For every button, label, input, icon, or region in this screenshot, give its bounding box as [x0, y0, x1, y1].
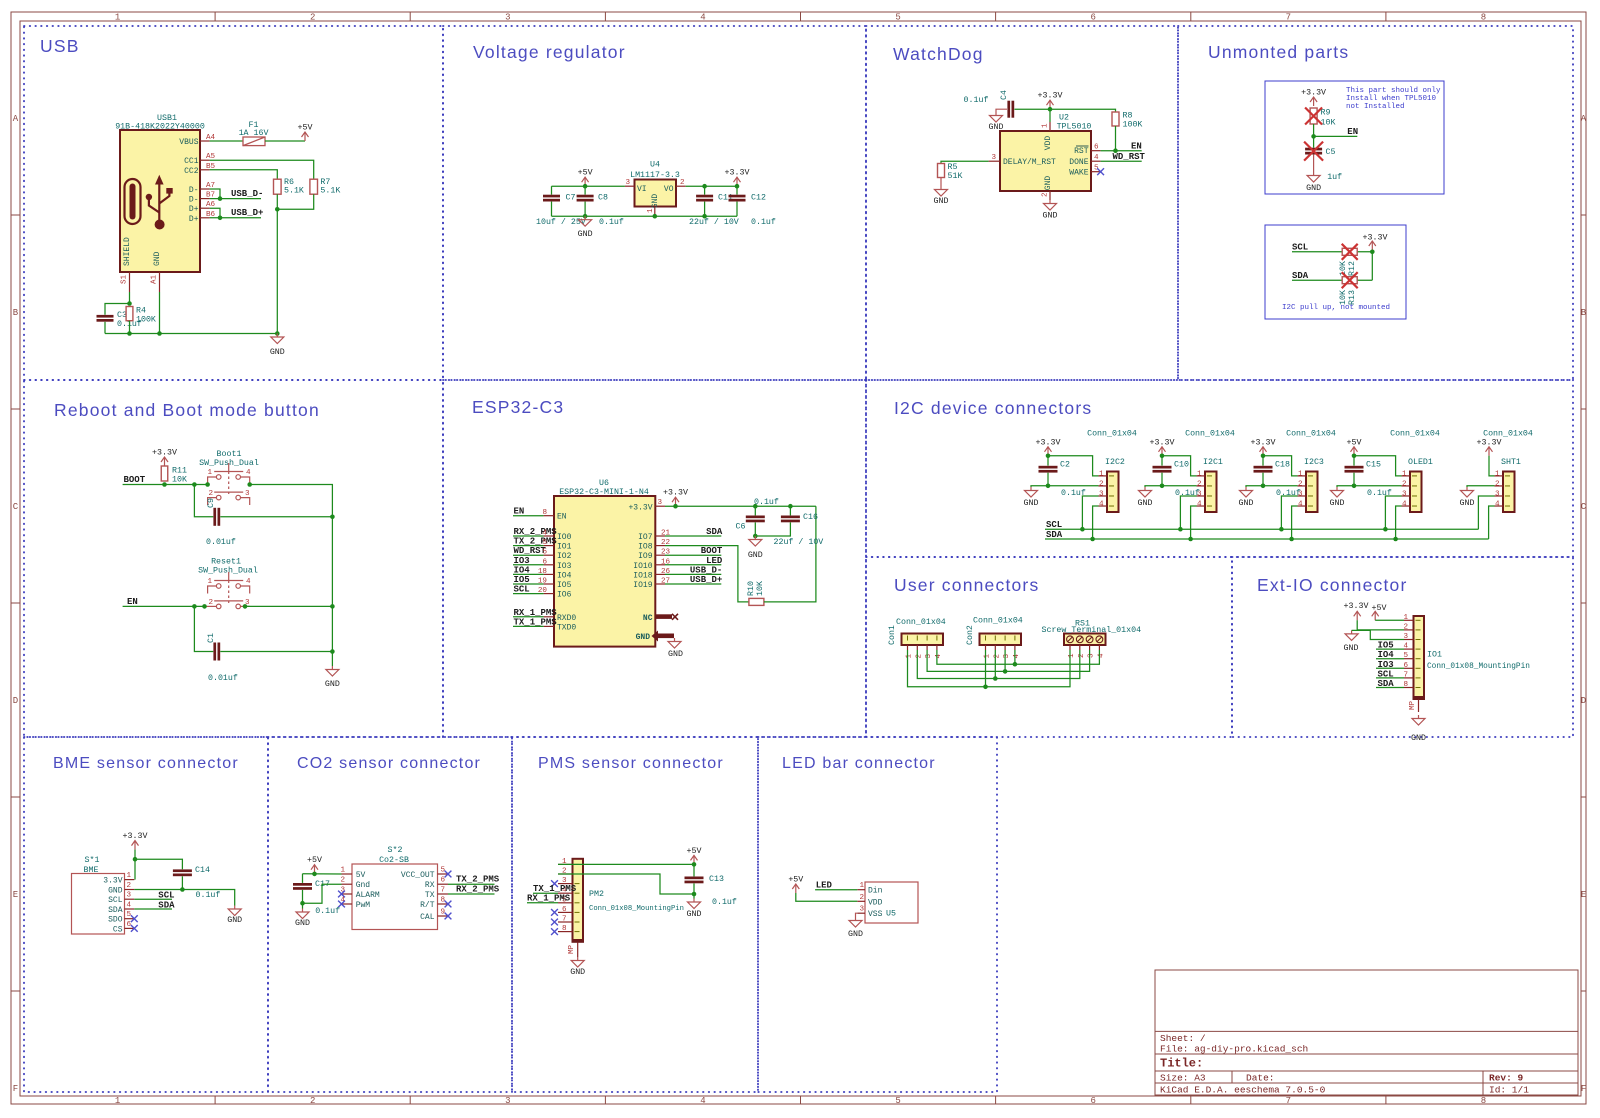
svg-text:SCL: SCL — [514, 585, 530, 595]
svg-text:C1: C1 — [207, 633, 216, 643]
junction SDA I2C2 — [1090, 537, 1095, 542]
svg-text:4: 4 — [1495, 501, 1500, 509]
pin VCC_OUT co2 — [438, 873, 449, 875]
pin IO4 — [544, 573, 554, 575]
svg-text:2: 2 — [915, 654, 923, 659]
ground reboot — [326, 666, 339, 676]
wire CC2 to R6 — [210, 170, 278, 179]
pin IO5 — [544, 583, 554, 585]
svg-text:EN: EN — [557, 513, 567, 522]
svg-text:C18: C18 — [1275, 461, 1290, 470]
wire user net pin1 — [908, 650, 1071, 687]
svg-text:F: F — [1581, 1084, 1586, 1094]
svg-text:R13: R13 — [1348, 290, 1357, 305]
svg-text:3: 3 — [657, 499, 662, 507]
junction RST — [1113, 148, 1118, 153]
junction cap gnd I2C2 — [1046, 484, 1051, 489]
svg-text:1: 1 — [207, 578, 212, 586]
svg-text:100K: 100K — [136, 316, 156, 325]
pin 5 pms — [558, 902, 573, 904]
svg-text:GND: GND — [1024, 499, 1039, 508]
pin IO10 — [655, 564, 665, 566]
pin 5 ext-io — [1404, 658, 1414, 660]
junction USB_D+ — [218, 216, 223, 221]
svg-text:1: 1 — [984, 654, 992, 659]
svg-text:RX: RX — [425, 881, 435, 890]
screw 1 — [1067, 636, 1074, 643]
svg-text:IO0: IO0 — [557, 533, 572, 542]
svg-text:2: 2 — [1099, 480, 1104, 488]
svg-text:U4: U4 — [650, 161, 660, 170]
svg-text:Conn_01x04: Conn_01x04 — [1483, 430, 1533, 439]
svg-text:Reboot and Boot mode button: Reboot and Boot mode button — [54, 400, 320, 420]
capacitor C13 — [693, 864, 695, 876]
svg-text:22uf / 10V: 22uf / 10V — [774, 537, 824, 547]
USB trident icon — [149, 182, 170, 221]
svg-text:7: 7 — [1403, 671, 1408, 679]
svg-text:OLED1: OLED1 — [1408, 458, 1433, 467]
junction user pin2 — [993, 676, 998, 681]
pin 5 WAKE no-connect — [1091, 171, 1101, 173]
svg-text:BME: BME — [84, 866, 99, 875]
svg-text:GND: GND — [325, 680, 340, 689]
capacitor C12 — [736, 186, 738, 194]
wire I2C3 pin3 to SCL — [1281, 496, 1297, 529]
fuse F1 — [243, 137, 265, 146]
svg-text:GND: GND — [1344, 644, 1359, 653]
wire power to pin1 — [1263, 456, 1298, 476]
svg-text:GND: GND — [153, 251, 162, 266]
svg-text:1uf: 1uf — [1327, 172, 1342, 182]
resistor R8 — [1112, 112, 1119, 126]
wire power to pin1 — [1162, 456, 1197, 476]
svg-text:3: 3 — [1003, 654, 1011, 659]
junction power OLED1 — [1352, 454, 1357, 459]
junction user pin1 — [983, 685, 988, 690]
svg-text:VDD: VDD — [1044, 136, 1053, 151]
svg-text:4: 4 — [1094, 154, 1099, 162]
svg-text:I2C2: I2C2 — [1105, 458, 1125, 467]
pin 6 RST — [1091, 150, 1101, 152]
svg-text:GND: GND — [636, 633, 651, 642]
svg-text:1: 1 — [1495, 470, 1500, 478]
svg-text:3: 3 — [1402, 490, 1407, 498]
power +3.3V watchdog — [1047, 100, 1054, 109]
junction power I2C2 — [1046, 454, 1051, 459]
frame column ticks and numbers — [214, 12, 216, 21]
svg-text:100K: 100K — [1123, 121, 1143, 130]
wire user net pin4 — [937, 650, 1100, 664]
svg-text:U5: U5 — [886, 910, 896, 919]
pin 2 VO — [676, 185, 686, 187]
svg-text:4: 4 — [246, 578, 251, 586]
junction gnd U4 — [653, 214, 658, 219]
wire VSS to gnd — [856, 913, 858, 917]
svg-text:22uf / 10V: 22uf / 10V — [689, 217, 739, 227]
svg-text:3: 3 — [245, 490, 250, 498]
connector IO1 body — [1414, 616, 1425, 699]
svg-text:I2C3: I2C3 — [1304, 458, 1324, 467]
wire RST / EN — [1101, 150, 1142, 152]
junction SDA I2C1 — [1188, 537, 1193, 542]
svg-text:Title:: Title: — [1160, 1057, 1203, 1071]
svg-text:TPL5010: TPL5010 — [1057, 123, 1092, 132]
svg-text:2: 2 — [127, 882, 132, 890]
capacitor C14 — [173, 869, 192, 872]
junction C16 top — [788, 504, 793, 509]
symbol S*1 BME body — [72, 874, 125, 935]
wire D- pair to label — [210, 189, 220, 199]
pin 8 pms — [558, 931, 573, 933]
svg-text:C14: C14 — [195, 866, 210, 875]
junction R4 bottom — [127, 331, 132, 336]
svg-text:IO6: IO6 — [557, 591, 572, 600]
connector I2C1 — [1205, 472, 1217, 513]
pin 6 ext-io — [1404, 667, 1414, 669]
resistor R6 — [274, 179, 282, 194]
pin IO8 — [655, 545, 665, 547]
svg-text:Conn_01x08_MountingPin: Conn_01x08_MountingPin — [589, 905, 684, 913]
svg-text:Din: Din — [868, 887, 883, 896]
svg-text:GND: GND — [295, 919, 310, 928]
wire R5 to pin3 — [941, 161, 989, 163]
pin GND bme — [125, 889, 135, 891]
svg-text:+3.3V: +3.3V — [663, 489, 688, 498]
junction cap gnd I2C1 — [1160, 484, 1165, 489]
connector OLED1 — [1410, 472, 1422, 513]
svg-text:IO3: IO3 — [557, 562, 572, 571]
svg-text:E: E — [1581, 890, 1586, 900]
svg-text:R9: R9 — [1321, 109, 1331, 118]
wire +5V junction — [303, 873, 342, 875]
svg-text:Unmonted parts: Unmonted parts — [1208, 42, 1349, 62]
wire SHIELD to C3/R4 — [129, 292, 131, 304]
wire power to pin1 sht — [1489, 456, 1495, 476]
svg-text:4: 4 — [1403, 643, 1408, 651]
frame row ticks and letters — [11, 214, 20, 216]
pin Gnd co2 — [342, 883, 353, 885]
svg-text:USB_D+: USB_D+ — [231, 208, 263, 218]
svg-text:TX_1_PMS: TX_1_PMS — [514, 617, 558, 627]
svg-text:S*2: S*2 — [388, 845, 403, 855]
ground C5 — [1307, 172, 1320, 182]
svg-text:8: 8 — [1403, 681, 1408, 689]
svg-text:I2C device connectors: I2C device connectors — [894, 398, 1092, 418]
svg-text:WD_RST: WD_RST — [1113, 152, 1146, 162]
svg-text:S1: S1 — [121, 274, 129, 284]
svg-text:2: 2 — [208, 599, 213, 607]
bottom rail wire — [105, 333, 277, 335]
junction co2 power — [312, 872, 317, 877]
regulator U4 body — [635, 180, 677, 207]
svg-text:GND: GND — [934, 197, 949, 206]
svg-text:C10: C10 — [1174, 461, 1189, 470]
svg-text:SDO: SDO — [108, 916, 123, 925]
pin 4 ext-io — [1404, 648, 1414, 650]
svg-text:Sheet: /: Sheet: / — [1160, 1033, 1206, 1044]
svg-text:GND: GND — [570, 968, 585, 977]
pin 6 pms — [558, 911, 573, 913]
power +3.3V SHT1 — [1486, 447, 1493, 456]
capacitor C1 — [194, 606, 213, 651]
pin 5V co2 — [342, 873, 353, 875]
ground I2C1 — [1139, 487, 1152, 497]
section box I2C device connectors — [866, 380, 1573, 557]
svg-text:WAKE: WAKE — [1069, 169, 1088, 178]
svg-text:Rev: 9: Rev: 9 — [1489, 1073, 1524, 1084]
bottom rail — [552, 215, 738, 217]
svg-text:2: 2 — [1298, 480, 1303, 488]
no-connect SDO — [131, 915, 138, 922]
svg-text:10K: 10K — [172, 476, 187, 485]
svg-text:GND: GND — [748, 551, 763, 560]
capacitor C15 — [1353, 456, 1355, 466]
svg-text:C6: C6 — [736, 523, 746, 532]
junction gnd rail — [275, 331, 280, 336]
svg-text:GND: GND — [687, 910, 702, 919]
svg-text:10K: 10K — [756, 581, 765, 596]
connector Con1 — [902, 634, 944, 646]
pin GND A1 — [159, 272, 161, 292]
svg-text:CO2 sensor connector: CO2 sensor connector — [297, 755, 481, 772]
svg-text:SHIELD: SHIELD — [123, 237, 132, 266]
svg-text:CC1: CC1 — [184, 157, 199, 166]
wire OLED1 pin4 to SDA — [1396, 506, 1402, 539]
ground R5 — [935, 186, 948, 196]
section box Unmonted parts — [1178, 26, 1573, 380]
pin MP pms — [573, 939, 584, 943]
wire boot right rail — [250, 485, 333, 667]
svg-text:Co2-SB: Co2-SB — [379, 856, 409, 865]
wire VBUS to fuse — [210, 140, 243, 142]
svg-text:Boot1: Boot1 — [217, 450, 242, 459]
wire I2C2 pin4 to SDA — [1093, 506, 1099, 539]
svg-text:3: 3 — [505, 13, 510, 23]
wire pin2 to gnd sht — [1467, 486, 1495, 487]
wire power to pin1 and C14 — [134, 850, 136, 880]
ground C4 — [990, 112, 1003, 122]
pin D- A7 — [200, 188, 210, 190]
pin IO7 — [655, 535, 665, 537]
screw 4 — [1096, 636, 1103, 643]
screw 3 — [1086, 636, 1093, 643]
svg-text:EN: EN — [514, 507, 525, 517]
wire pin1 to +5V — [558, 863, 694, 865]
section box Voltage regulator — [443, 26, 866, 380]
wire R9 to EN — [1314, 124, 1358, 136]
svg-text:TX_1_PMS: TX_1_PMS — [533, 884, 577, 894]
power +5V pms — [691, 855, 698, 864]
pin MP ext-io — [1418, 699, 1420, 712]
svg-text:GND: GND — [227, 916, 242, 925]
svg-text:5: 5 — [895, 13, 900, 23]
svg-text:+3.3V: +3.3V — [725, 169, 750, 178]
junction power I2C3 — [1261, 454, 1266, 459]
wire SDA — [1292, 279, 1372, 281]
svg-text:Ext-IO connector: Ext-IO connector — [1257, 575, 1408, 595]
section box User connectors — [866, 557, 1232, 737]
svg-text:0.1uf: 0.1uf — [196, 890, 221, 900]
junction C6 top — [753, 504, 758, 509]
svg-text:Conn_01x08_MountingPin: Conn_01x08_MountingPin — [1427, 663, 1530, 671]
svg-text:I2C1: I2C1 — [1203, 458, 1223, 467]
no-connect pins 3 6 7 8 — [551, 880, 558, 887]
svg-text:LED bar connector: LED bar connector — [782, 755, 936, 772]
svg-text:DONE: DONE — [1069, 158, 1088, 167]
wire +3.3V to R8 — [1050, 109, 1116, 112]
power +3.3V I2C2 — [1045, 447, 1052, 456]
pin IO1 — [544, 545, 554, 547]
pin 3 DELAY/M_RST — [989, 160, 1000, 162]
capacitor C11 — [704, 186, 706, 194]
svg-text:18: 18 — [538, 568, 548, 576]
junction user pin4 — [1013, 662, 1018, 667]
pin SHIELD S1 — [129, 272, 131, 292]
ground SHT1 — [1461, 487, 1474, 497]
pin 2 GND — [1049, 191, 1051, 200]
svg-text:S*1: S*1 — [85, 855, 100, 865]
svg-text:3: 3 — [505, 1096, 510, 1106]
svg-text:SDA: SDA — [108, 906, 123, 915]
svg-text:EN: EN — [1131, 142, 1142, 152]
svg-text:DELAY/M_RST: DELAY/M_RST — [1003, 158, 1056, 167]
svg-text:C16: C16 — [803, 513, 818, 522]
junction SCL I2C2 — [1080, 527, 1085, 532]
junction R11 — [162, 482, 167, 487]
svg-text:+3.3V: +3.3V — [1301, 89, 1326, 98]
wire R8 to RST — [1115, 126, 1117, 151]
resistor R4 — [126, 307, 133, 321]
pin TX co2 — [438, 893, 449, 895]
wire BOOT — [123, 484, 208, 486]
wire +5V to pin1 — [1375, 619, 1404, 621]
svg-text:+3.3V: +3.3V — [1344, 602, 1369, 611]
junction bme power — [133, 857, 138, 862]
svg-text:GND: GND — [1138, 499, 1153, 508]
svg-text:+5V: +5V — [788, 876, 803, 885]
svg-text:3: 3 — [127, 892, 132, 900]
wire pin2 to C13 bottom — [558, 874, 694, 894]
junction SDA I2C3 — [1289, 537, 1294, 542]
svg-text:VSS: VSS — [868, 910, 883, 919]
svg-text:C5: C5 — [1326, 148, 1336, 157]
pin RXD0 — [544, 616, 554, 618]
svg-text:7: 7 — [1286, 1096, 1291, 1106]
svg-text:1: 1 — [1068, 653, 1076, 658]
svg-text:D+: D+ — [189, 205, 199, 214]
junction cap branch boot — [192, 482, 197, 487]
svg-text:BOOT: BOOT — [124, 475, 146, 485]
svg-text:2: 2 — [1403, 623, 1408, 631]
svg-text:SDA: SDA — [1292, 271, 1309, 281]
svg-text:CC2: CC2 — [184, 167, 199, 176]
pin 7 pms — [558, 921, 573, 923]
svg-text:+3.3V: +3.3V — [1251, 438, 1276, 447]
section box Reboot — [24, 380, 443, 737]
connector I2C2 — [1107, 472, 1119, 513]
power +3.3V pullup — [1369, 241, 1376, 250]
svg-text:Con2: Con2 — [966, 625, 975, 645]
svg-text:0.1uf: 0.1uf — [751, 217, 776, 227]
wire I2C1 pin4 to SDA — [1191, 506, 1197, 539]
junction reset pin3 — [243, 604, 248, 609]
wire IO8 to R10 — [665, 546, 749, 602]
svg-text:3.3V: 3.3V — [103, 877, 122, 886]
ground GND usb — [271, 334, 284, 344]
junction boot cap right — [330, 515, 335, 520]
svg-text:+5V: +5V — [1347, 438, 1362, 447]
wire CC1 to R7 — [210, 160, 314, 179]
pin 3 ext-io — [1404, 639, 1414, 641]
junction gnd C11 — [702, 214, 707, 219]
svg-text:RX_2_PMS: RX_2_PMS — [456, 885, 500, 895]
pin IO19 — [655, 583, 665, 585]
junction C8 top — [583, 184, 588, 189]
svg-text:0.1uf: 0.1uf — [315, 906, 340, 916]
wire R7 bottom to junction — [277, 194, 313, 209]
ground bme — [228, 906, 241, 916]
svg-text:+3.3V: +3.3V — [1363, 234, 1388, 243]
svg-text:C13: C13 — [709, 875, 724, 884]
wire power to pin1 — [1048, 456, 1099, 476]
pin 1 ext-io — [1404, 619, 1414, 621]
pin IO3 — [544, 564, 554, 566]
svg-text:Conn_01x04: Conn_01x04 — [896, 618, 946, 627]
svg-text:7: 7 — [441, 887, 446, 895]
junction reset rail — [330, 604, 335, 609]
wire cap to pin2 — [1048, 485, 1099, 487]
svg-text:2: 2 — [993, 654, 1001, 659]
svg-text:U6: U6 — [599, 479, 609, 488]
pin CAL co2 — [438, 915, 449, 917]
wire fuse to +5V — [265, 140, 305, 142]
wire user net pin3 — [927, 650, 1090, 671]
pin GND esp — [658, 634, 674, 639]
ground OLED1 — [1331, 487, 1344, 497]
svg-text:PM2: PM2 — [589, 890, 604, 899]
svg-text:+5V: +5V — [578, 169, 593, 178]
wire pin2 to gnd — [303, 884, 342, 903]
svg-text:3: 3 — [1088, 653, 1096, 658]
junction cap gnd OLED1 — [1352, 484, 1357, 489]
svg-text:SCL: SCL — [1292, 243, 1308, 253]
wire SCL — [1292, 251, 1372, 253]
svg-text:D: D — [13, 696, 18, 706]
wire I2C3 pin4 to SDA — [1292, 506, 1298, 539]
junction cap gnd I2C3 — [1261, 484, 1266, 489]
svg-text:This part should only: This part should only — [1346, 87, 1441, 95]
svg-text:A: A — [13, 114, 19, 124]
svg-text:I2C pull up, not mounted: I2C pull up, not mounted — [1282, 304, 1390, 312]
pin SCL bme — [125, 898, 135, 900]
svg-text:+3.3V: +3.3V — [1038, 92, 1063, 101]
note box 2 — [1265, 225, 1406, 319]
svg-text:Id: 1/1: Id: 1/1 — [1489, 1085, 1529, 1096]
ground I2C3 — [1240, 487, 1253, 497]
pin NC — [656, 614, 672, 619]
svg-text:IO19: IO19 — [633, 581, 652, 590]
svg-text:C15: C15 — [1366, 461, 1381, 470]
svg-text:6: 6 — [1090, 1096, 1095, 1106]
symbol U5 body — [865, 882, 918, 923]
svg-text:GND: GND — [270, 348, 285, 357]
svg-text:GND: GND — [1460, 499, 1475, 508]
svg-text:GND: GND — [651, 194, 660, 209]
svg-text:6: 6 — [562, 906, 567, 914]
junction user pin3 — [1003, 669, 1008, 674]
svg-text:1: 1 — [207, 469, 212, 477]
pin 1 pms — [558, 863, 573, 865]
